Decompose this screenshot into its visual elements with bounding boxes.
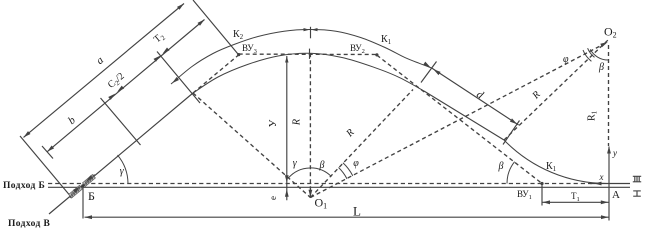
node arrow to B from above: [86, 175, 93, 181]
node T2 arrow upper: [198, 20, 205, 26]
wire approach V diagonal: [49, 93, 193, 214]
node label T1: [571, 191, 580, 203]
node label d: [474, 88, 486, 101]
node apex tick on dimension arc: [310, 27, 312, 39]
svg-text:φ: φ: [563, 54, 569, 65]
node C2 arrow left: [117, 86, 124, 92]
svg-text:β: β: [598, 62, 604, 73]
node angle gamma-beta arc at O1: [288, 168, 331, 178]
wire main curve (radius R arc): [193, 53, 424, 93]
node label VU1: [517, 189, 532, 201]
wire apex tangent dashed VU3-VU2: [239, 53, 377, 55]
svg-text:Подход Б: Подход Б: [3, 181, 45, 191]
node label L: [353, 204, 361, 219]
wire extension line at T-left: [157, 52, 200, 104]
node label R 45deg: [344, 127, 357, 140]
node hatched mark at point B: [69, 174, 96, 198]
node b arrow lower: [47, 146, 54, 152]
node label line I: [633, 191, 641, 196]
node label U: [267, 119, 279, 127]
wire extension line at VU3: [193, 0, 239, 55]
node a arrow lower: [24, 131, 31, 137]
node label C2/2: [106, 71, 127, 92]
node U arrow top: [285, 56, 288, 63]
node angle phi double-arc inner at O2: [588, 48, 595, 57]
svg-text:Подход В: Подход В: [8, 219, 51, 229]
node T2 arrow left: [163, 48, 170, 54]
node label K1 bottom: [546, 161, 557, 173]
wire auxiliary curve K1: [504, 140, 608, 184]
node arrow to B from below: [73, 187, 80, 193]
svg-text:А: А: [612, 189, 620, 201]
node y axis arrow: [607, 146, 611, 154]
node label O2: [604, 25, 617, 40]
svg-text:φ: φ: [353, 158, 359, 169]
node d dimension arrow lower: [510, 118, 517, 124]
node label R vertical: [292, 119, 303, 126]
node angle gamma arc at B: [118, 155, 129, 184]
node T1 arrow left: [543, 200, 551, 204]
wire extension line at M1: [101, 98, 141, 145]
wire dashed line O1-O2: [311, 43, 606, 197]
node label beta at O1: [319, 160, 325, 171]
node label phi at O2: [563, 54, 569, 65]
wire dimension line a: [24, 4, 185, 138]
node K1 dimension arrow at tick: [423, 62, 430, 68]
node label R1: [587, 110, 599, 121]
node angle beta arc at O2: [590, 49, 608, 60]
node label K2: [233, 29, 244, 41]
svg-text:β: β: [498, 161, 504, 172]
node label B: [88, 189, 95, 203]
node label Podhod V: [8, 219, 51, 229]
node label y: [612, 148, 617, 158]
node label VU3: [242, 43, 257, 55]
node VU1 point: [540, 182, 543, 185]
node L arrow left: [85, 215, 93, 219]
wire extension below VU1: [541, 185, 543, 206]
svg-text:е: е: [268, 196, 278, 200]
svg-text:У: У: [267, 119, 279, 127]
wire radius dashed O1 to T-left: [193, 93, 311, 198]
node label Podhod B: [3, 181, 45, 191]
node label a: [94, 54, 106, 67]
wire curve-length dimension arc: [171, 30, 432, 85]
node label x: [599, 172, 604, 182]
wire line III (road axis, dashed): [48, 183, 592, 185]
node arrow at O2 end of O1-O2 line: [600, 42, 608, 47]
wire radius R1 dashed O2 vertical: [608, 45, 610, 146]
wire radius R vertical dashed O1-apex: [309, 53, 311, 197]
wire tangent dashed VU2-VU1: [377, 55, 542, 183]
node label line III: [633, 176, 641, 182]
svg-text:L: L: [353, 204, 361, 219]
wire dimension line U and e vertical: [286, 56, 288, 200]
node point B dot: [81, 184, 84, 187]
node tick d/K1-curve boundary: [503, 121, 520, 145]
node label R O1O2: [530, 89, 543, 102]
node L arrow right: [601, 215, 609, 219]
node label K1 top: [381, 34, 392, 46]
node label phi at O1: [353, 158, 359, 169]
node d dimension arrow upper: [433, 69, 440, 75]
wire vertical extension below B: [82, 185, 84, 219]
node tick K1/d boundary: [421, 62, 437, 83]
node label beta at VU1: [498, 161, 504, 172]
node angle phi double-arc inner at O1: [339, 168, 348, 179]
node label gamma at O1: [293, 158, 298, 169]
node K2 dimension arrow left end: [172, 77, 179, 83]
svg-text:β: β: [319, 160, 325, 171]
node VU3 point: [237, 53, 240, 56]
node b arrow right: [108, 94, 115, 100]
wire road straight segment on line III: [590, 183, 630, 185]
wire extension line at B: [20, 136, 72, 198]
svg-text:x: x: [599, 172, 604, 182]
node label VU2: [350, 43, 365, 55]
wire dimension line L: [85, 216, 609, 218]
node C2 arrow right: [154, 56, 161, 62]
wire line I: [48, 186, 630, 188]
svg-text:R: R: [292, 119, 303, 126]
node angle phi double-arc outer at O1: [343, 163, 353, 176]
node x arrow on line III: [594, 182, 602, 186]
wire radius dashed O2 to K1 junction: [504, 40, 608, 140]
node label b: [66, 114, 78, 127]
node angle beta arc at VU1: [507, 162, 515, 184]
node arrow at O1 on vertical radius: [309, 190, 313, 198]
node VU2 point: [375, 53, 378, 56]
node label A: [612, 189, 620, 201]
node label gamma at B: [120, 166, 125, 177]
wire dimension line d: [432, 68, 519, 125]
node apex tick on main curve: [309, 49, 311, 59]
node K1 dimension arrow at apex: [312, 28, 318, 31]
node K2 dimension arrow at apex: [304, 28, 310, 31]
node e arrow up: [285, 189, 289, 197]
wire radius R dashed O1 45deg: [311, 90, 414, 198]
wire dimension line T1: [542, 201, 609, 203]
wire dimension line b / C2 / T2: [47, 20, 204, 152]
svg-text:y: y: [612, 148, 617, 158]
node a arrow upper: [177, 4, 184, 10]
svg-text:Б: Б: [88, 189, 95, 203]
node label O1: [315, 196, 328, 211]
node U arrow bottom: [285, 175, 289, 183]
wire y axis: [608, 147, 610, 221]
node label T2: [152, 30, 167, 46]
node angle phi double-arc outer at O2: [583, 50, 591, 61]
wire straight insert d: [424, 91, 504, 140]
wire tangent extension T-left to VU3 (dashed): [193, 55, 239, 93]
node tick at b lower end: [42, 146, 53, 159]
node label beta at O2: [598, 62, 604, 73]
node T1 arrow right: [601, 200, 609, 204]
node label e: [268, 196, 278, 200]
